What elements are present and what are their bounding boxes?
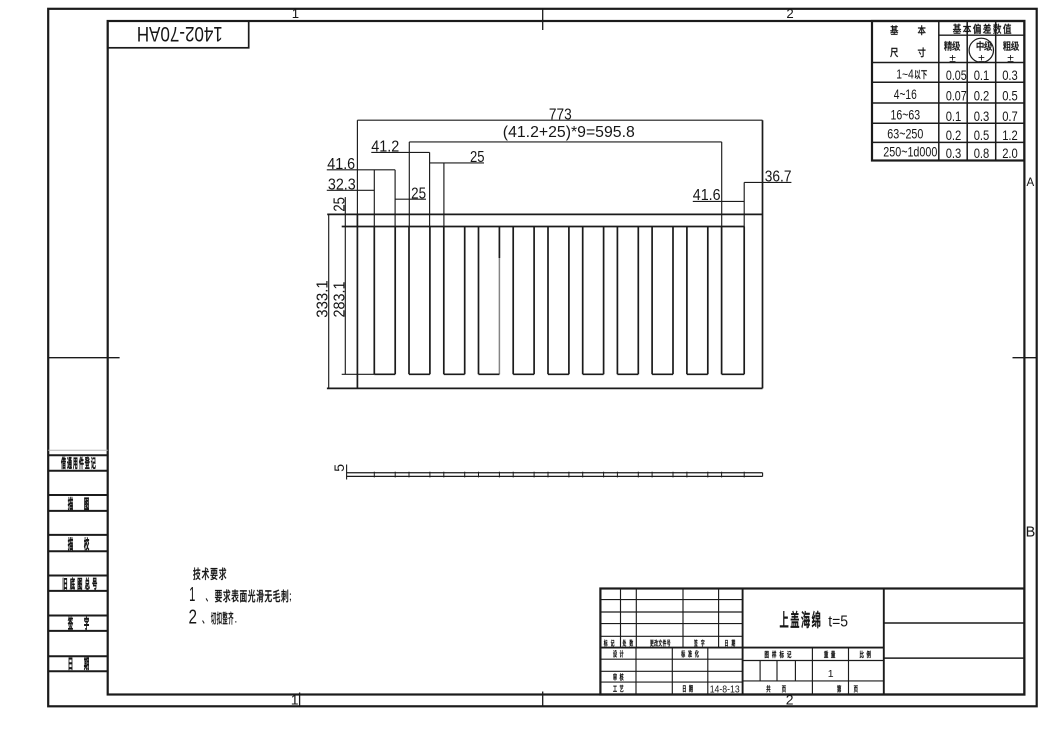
- svg-text:0.07: 0.07: [946, 88, 967, 104]
- tb label zhongliang: [824, 651, 828, 658]
- tb label gong ye: [766, 685, 770, 692]
- dim 41.6 left: [327, 169, 395, 171]
- label ri qi: [69, 658, 73, 670]
- tol hdr zhongji circle: [969, 38, 993, 62]
- svg-text:0.7: 0.7: [1002, 108, 1018, 124]
- left blocks faint top line: [48, 449, 107, 451]
- svg-text:B: B: [1026, 524, 1036, 540]
- dim 25 vert: [344, 197, 346, 226]
- svg-text:1: 1: [292, 6, 299, 21]
- title block grid: [600, 589, 1024, 695]
- tolerance table grid: [872, 21, 1024, 161]
- svg-text:0.5: 0.5: [974, 127, 990, 143]
- svg-text:283.1: 283.1: [332, 282, 349, 318]
- svg-text:5: 5: [331, 464, 347, 472]
- tol hdr jiben: [890, 25, 898, 34]
- svg-text:0.2: 0.2: [974, 88, 990, 104]
- tb label genggai wenjianhao: [650, 640, 653, 647]
- svg-text:;: ;: [289, 589, 292, 603]
- slot bottoms ext line: [342, 373, 375, 375]
- tol hdr jingji: [944, 41, 952, 51]
- svg-text:0.1: 0.1: [946, 108, 962, 124]
- svg-text:25: 25: [411, 185, 426, 202]
- tb label chushu: [623, 639, 627, 646]
- drawing number box: [108, 21, 249, 48]
- dim 36.7: [744, 181, 791, 183]
- fold mark bottom left: [299, 693, 301, 707]
- label jiu di tu zong hao: [63, 578, 67, 590]
- tb label bili: [860, 651, 864, 658]
- svg-text:A: A: [1026, 177, 1034, 189]
- svg-text:1: 1: [828, 668, 834, 680]
- dim 41.2: [371, 151, 429, 153]
- tech req item 2 dunhao: [202, 620, 204, 624]
- dim 595.8: [409, 141, 721, 143]
- dim 773: [356, 120, 358, 214]
- svg-text:0.8: 0.8: [974, 145, 990, 161]
- comb slots (11x): [373, 227, 375, 375]
- svg-text:41.6: 41.6: [693, 187, 721, 204]
- tb label biaoji: [604, 639, 608, 646]
- dim 283.1 line: [344, 227, 346, 375]
- tech req item 2 text: [211, 612, 216, 624]
- dim 25 upper: [430, 162, 484, 164]
- tech req item 1 text: [215, 590, 222, 602]
- svg-text:0.1: 0.1: [974, 67, 990, 83]
- svg-text:0.2: 0.2: [946, 127, 962, 143]
- svg-text:(41.2+25)*9=595.8: (41.2+25)*9=595.8: [503, 124, 635, 141]
- svg-text:±: ±: [1007, 51, 1014, 65]
- svg-text:0.3: 0.3: [946, 145, 962, 161]
- svg-text:25: 25: [470, 149, 485, 166]
- tb label biaozhunhua: [681, 650, 685, 657]
- tol hdr cuji: [1003, 41, 1011, 51]
- svg-text:1402-70AH: 1402-70AH: [137, 22, 223, 45]
- part top edge (ext to 333.1 dim): [327, 213, 762, 215]
- part bottom edge (ext to 333.1 dim): [327, 387, 763, 389]
- svg-text:0.5: 0.5: [1002, 88, 1018, 104]
- svg-text:1: 1: [291, 692, 299, 708]
- dim 32.3: [327, 189, 375, 191]
- svg-text:32.3: 32.3: [328, 176, 356, 193]
- strip top line: [347, 472, 763, 474]
- svg-text:0.3: 0.3: [1002, 67, 1018, 83]
- svg-text:25: 25: [331, 197, 348, 212]
- zone divider tick top center: [542, 9, 544, 30]
- svg-text:0.05: 0.05: [946, 67, 967, 83]
- dim 25 lower: [396, 198, 427, 200]
- svg-text:333.1: 333.1: [315, 280, 332, 317]
- svg-text:14-8-13: 14-8-13: [710, 684, 740, 695]
- svg-text:±: ±: [949, 51, 956, 65]
- svg-text:41.2: 41.2: [371, 138, 399, 155]
- tech req item 1 dunhao: [206, 598, 208, 602]
- label qian zi: [68, 617, 73, 630]
- left blocks cell lines: [48, 454, 107, 456]
- svg-text:2.0: 2.0: [1002, 145, 1018, 161]
- svg-text:250~1d000: 250~1d000: [883, 144, 937, 160]
- dim 333.1 line: [328, 214, 330, 388]
- svg-text:41.6: 41.6: [327, 156, 355, 173]
- label miao tu: [68, 497, 73, 510]
- tech req title: [193, 568, 200, 581]
- strip right end: [762, 473, 764, 477]
- svg-text:36.7: 36.7: [765, 168, 792, 185]
- dim 41.6 right: [693, 200, 744, 202]
- tb label riqi: [725, 640, 728, 646]
- svg-text:t=5: t=5: [828, 613, 848, 630]
- slot top line (ext to 283.1 dim): [342, 226, 745, 228]
- svg-text:773: 773: [549, 106, 572, 123]
- svg-text:1.2: 1.2: [1002, 127, 1018, 143]
- tb label qianzi: [694, 639, 698, 646]
- svg-text:63~250: 63~250: [887, 126, 923, 142]
- tb label riqi2: [683, 685, 686, 692]
- svg-text:0.3: 0.3: [974, 108, 990, 124]
- tb part name: [780, 611, 788, 627]
- tb label di ye: [837, 685, 841, 692]
- strip slot ticks: [373, 472, 375, 478]
- svg-text:2: 2: [189, 606, 198, 628]
- label miao jiao: [68, 537, 73, 550]
- svg-text:1: 1: [189, 584, 195, 606]
- centering mark left: [48, 357, 119, 359]
- tol hdr zhongji: [977, 41, 984, 51]
- svg-text:16~63: 16~63: [891, 106, 921, 122]
- svg-text:4~16: 4~16: [894, 86, 917, 102]
- part outline left edge: [356, 214, 358, 388]
- tb label gongyi: [613, 686, 617, 692]
- centering mark right: [1013, 357, 1037, 359]
- part outline right edge: [762, 120, 764, 388]
- zone divider tick bottom center: [542, 692, 544, 707]
- tb label sheji: [613, 650, 617, 657]
- svg-text:2: 2: [786, 6, 793, 21]
- svg-text:.: .: [234, 612, 237, 626]
- dim 5 line: [346, 465, 348, 480]
- tol hdr chicun: [890, 48, 898, 57]
- label jie tong yong jian deng ji: [61, 457, 66, 469]
- strip bottom line: [347, 475, 763, 477]
- tb label tuyang biaoji: [765, 651, 769, 658]
- tb label shenhe: [613, 673, 616, 680]
- tol hdr jiben piancha shuzhi: [953, 24, 961, 34]
- svg-text:1~4: 1~4: [896, 66, 914, 81]
